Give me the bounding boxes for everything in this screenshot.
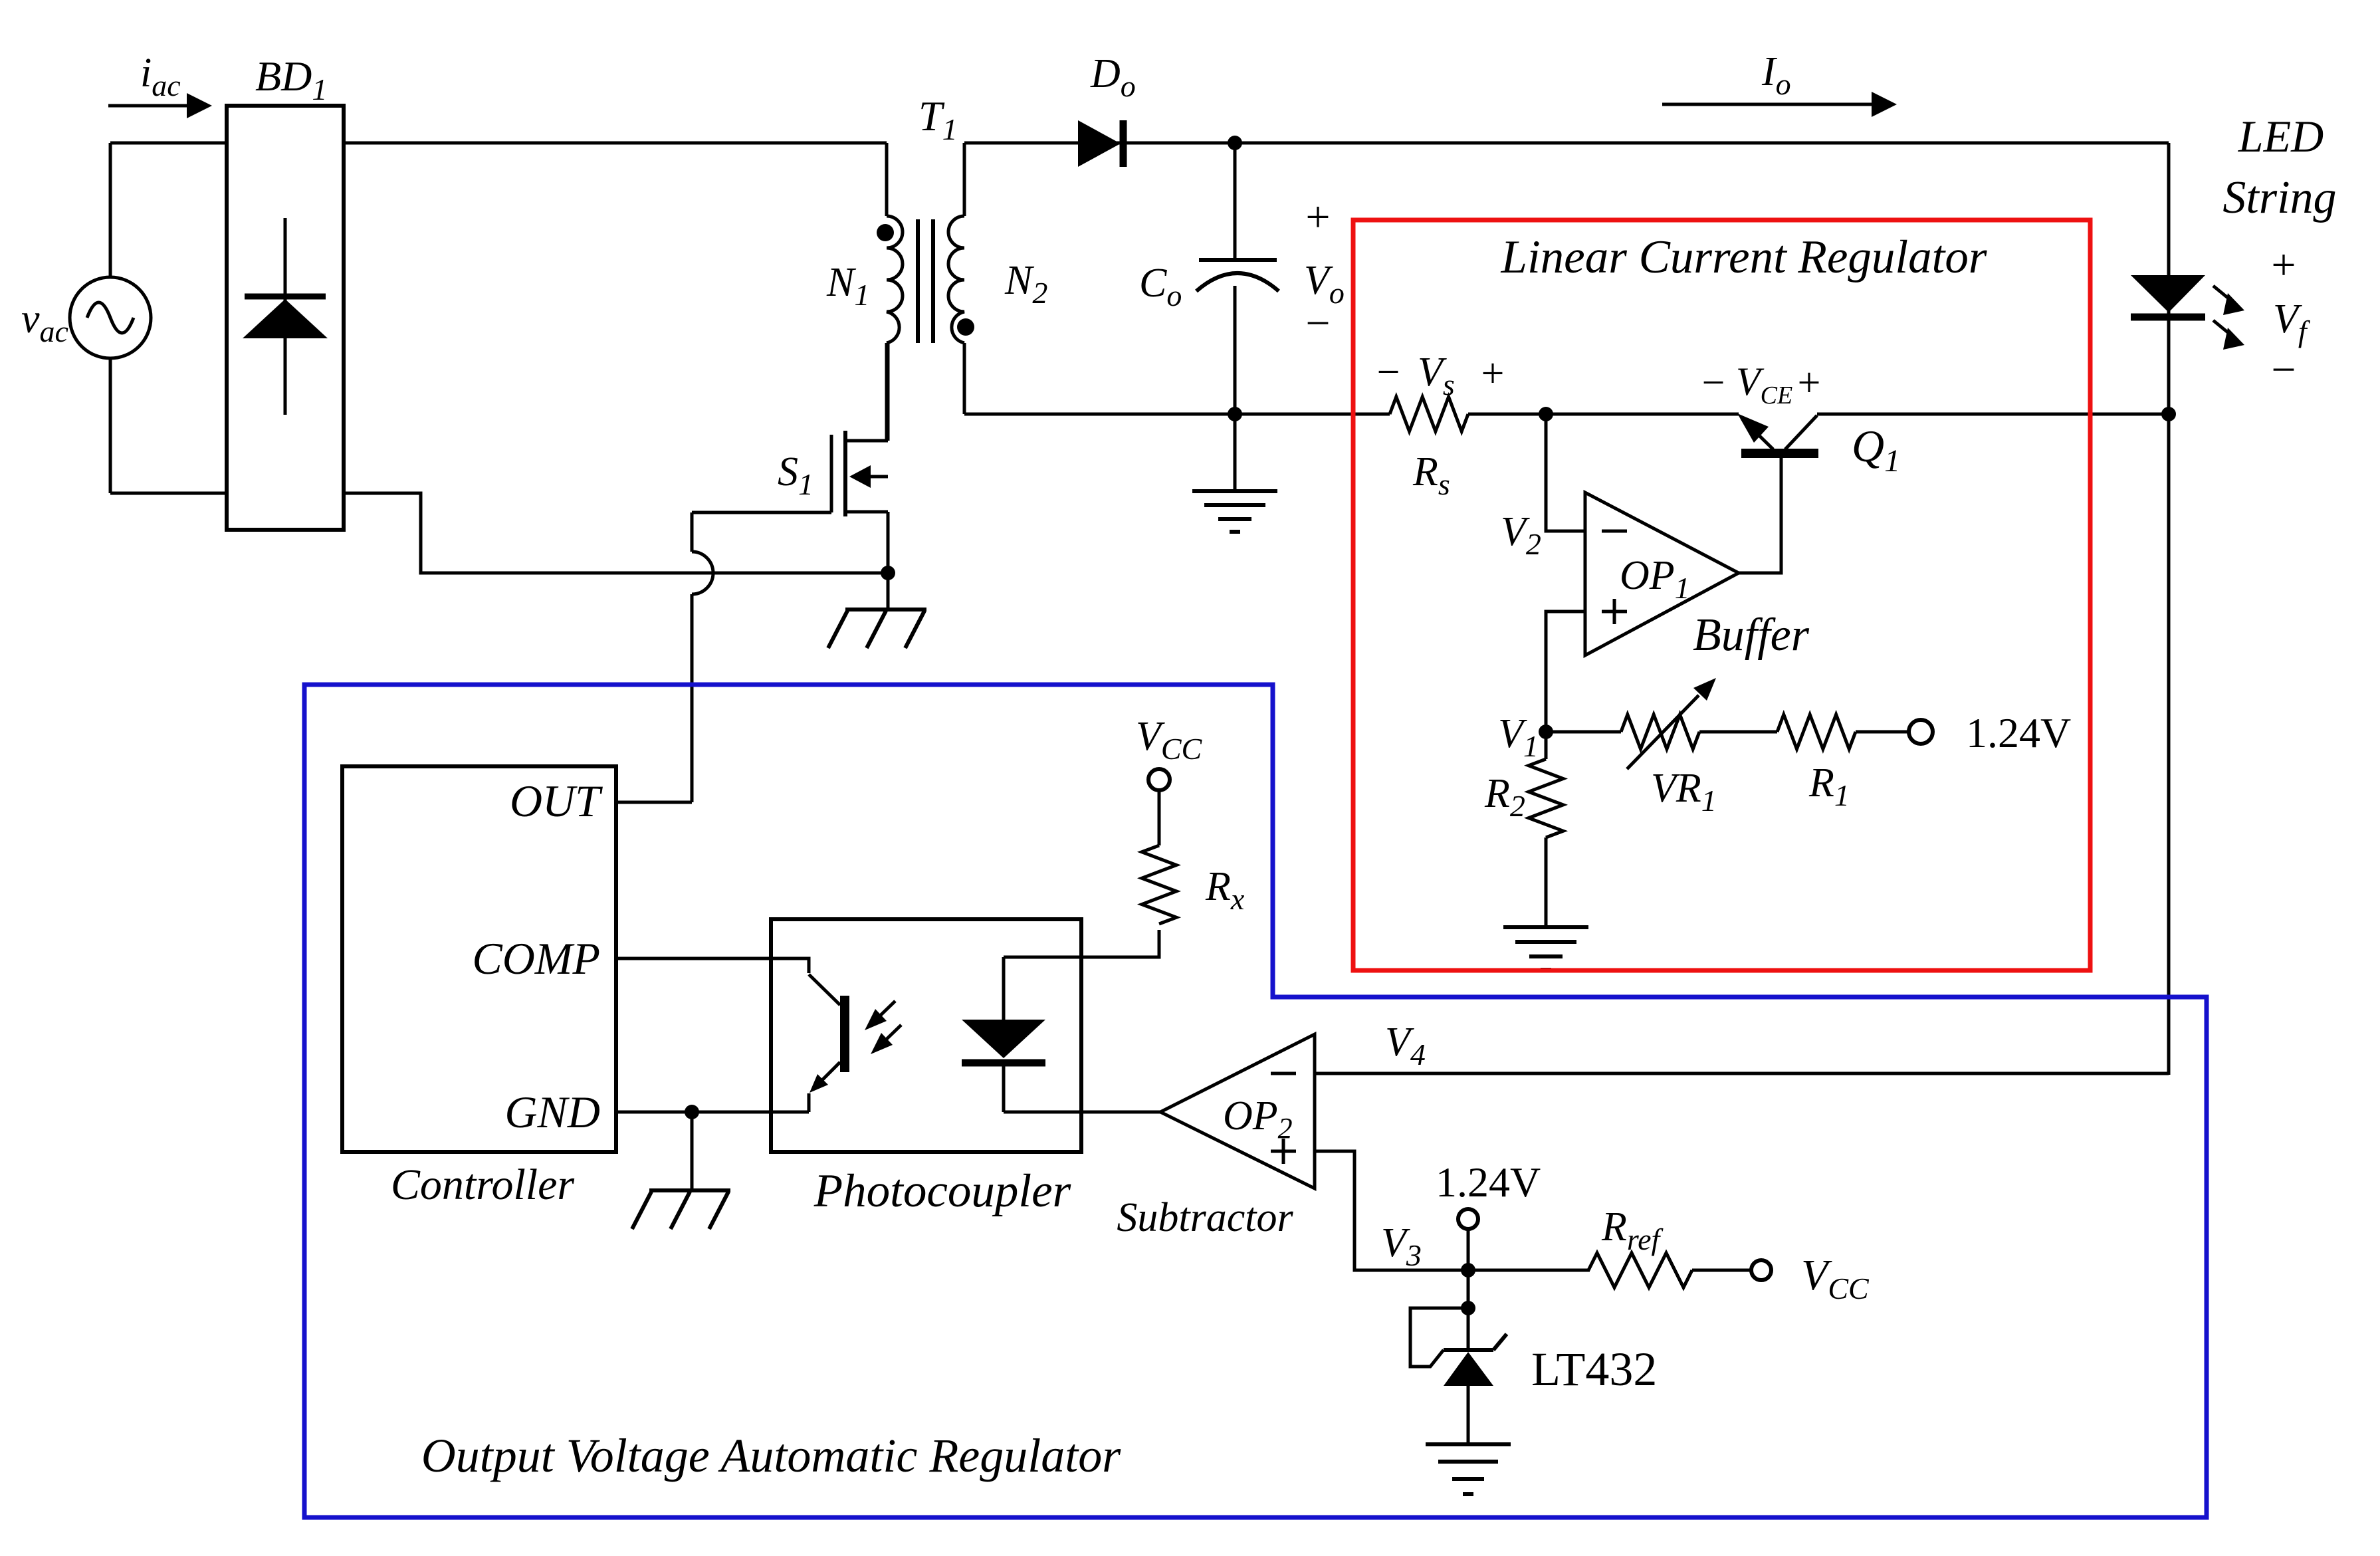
svg-text:Photocoupler: Photocoupler	[813, 1165, 1071, 1217]
wire R1 to 1.24V terminal	[1856, 730, 1908, 734]
junction node at LED string bottom	[2161, 407, 2176, 421]
photocoupler light arrows	[865, 1001, 901, 1054]
wire 1.24V terminal to V3 node	[1467, 1229, 1470, 1270]
svg-text:1.24V: 1.24V	[1966, 709, 2071, 756]
wire top rail from bridge to transformer primary	[344, 142, 887, 145]
wire photocoupler LED anode lead	[1002, 957, 1006, 1020]
transformer T1 secondary dot	[957, 318, 974, 336]
svg-text:−: −	[1305, 299, 1330, 348]
wire photocoupler LED cathode lead	[1002, 1063, 1006, 1112]
wire primary top lead	[885, 143, 889, 216]
wire controller COMP to photocoupler	[616, 958, 809, 973]
wire S1 source junction to chassis ground	[887, 573, 890, 610]
svg-text:−: −	[2271, 346, 2296, 394]
earth ground below LT432	[1426, 1444, 1511, 1494]
junction node at controller GND	[685, 1105, 699, 1119]
Io current arrow	[1662, 92, 1897, 117]
junction node at LT432 cathode	[1461, 1301, 1475, 1315]
svg-text:Linear Current Regulator: Linear Current Regulator	[1500, 231, 1987, 283]
wire Rref to VCC terminal	[1692, 1269, 1751, 1272]
op-amp OP2	[1160, 1034, 1315, 1188]
wire photocoupler emitter to GND rail	[808, 1093, 811, 1112]
transistor Q1	[1737, 413, 1818, 453]
wire vac upper lead	[109, 143, 112, 277]
wire LED string vertical	[2167, 143, 2171, 1075]
op-amp OP1	[1585, 493, 1739, 655]
svg-text:String: String	[2222, 172, 2336, 223]
wire controller GND rail	[616, 1111, 809, 1114]
blue box Output Voltage Automatic Regulator	[304, 685, 2207, 1517]
wire OP2 noninverting input to V3 node	[1315, 1151, 1468, 1270]
MOSFET S1	[831, 343, 888, 573]
junction node at S1 source	[881, 566, 895, 580]
variable resistor VR1	[1621, 678, 1716, 769]
wire OP1 output to Q1 base	[1739, 458, 1781, 573]
svg-text:+: +	[1798, 360, 1821, 405]
resistor R1	[1777, 715, 1856, 749]
junction node at Co bottom	[1228, 407, 1242, 421]
photocoupler box	[771, 919, 1081, 1152]
wire V1 to VR1	[1546, 730, 1621, 734]
svg-text:Buffer: Buffer	[1693, 610, 1810, 661]
transformer T1 core	[918, 219, 933, 343]
svg-text:LT432: LT432	[1531, 1343, 1657, 1396]
wire gate line hop over bottom rail	[692, 552, 713, 594]
wire R2 to earth ground	[1545, 837, 1548, 927]
resistor Rx	[1142, 845, 1176, 924]
svg-text:+: +	[1481, 351, 1505, 396]
bridge rectifier BD1	[227, 106, 344, 530]
transformer T1 primary winding N1	[887, 216, 903, 343]
wire V1 down to R2	[1545, 732, 1548, 759]
wire photocoupler LED to OP2 output	[1004, 1111, 1160, 1114]
svg-text:LED: LED	[2238, 111, 2324, 162]
wire bottom from vac to bridge	[110, 492, 227, 495]
transformer T1 primary dot	[877, 224, 894, 241]
controller box	[342, 766, 616, 1152]
wire V2 junction down to OP1 inverting input	[1546, 414, 1585, 531]
VCC terminal circle after Rref	[1751, 1260, 1771, 1280]
1.24V terminal circle after R1	[1909, 720, 1933, 744]
iac current arrow	[108, 93, 212, 118]
earth ground below R2	[1503, 927, 1588, 970]
wire Rs to V2 junction	[1468, 413, 1739, 416]
svg-text:−: −	[1702, 360, 1725, 405]
wire secondary top rail through Do to LED string corner	[964, 142, 2169, 145]
wire LT432 anode to earth ground	[1467, 1386, 1470, 1444]
1.24V terminal circle above V3	[1458, 1209, 1478, 1229]
photocoupler phototransistor	[809, 974, 845, 1093]
wire vac lower lead	[109, 358, 112, 493]
photocoupler LED	[962, 1020, 1045, 1063]
svg-text:+: +	[2271, 241, 2296, 289]
wire secondary top lead	[963, 143, 966, 216]
wire bottom output rail to Rs	[964, 413, 1390, 416]
chassis ground below S1	[828, 610, 926, 648]
junction node V2	[1539, 407, 1553, 421]
output capacitor Co	[1196, 260, 1279, 291]
transformer T1 secondary winding N2	[948, 216, 964, 343]
output diode Do	[1078, 120, 1123, 167]
wire bridge bottom-right exit	[344, 493, 888, 573]
wire secondary bottom lead	[963, 343, 966, 414]
VCC terminal circle at Rx	[1148, 769, 1170, 790]
wire Co top branch	[1234, 143, 1237, 260]
bridge diode symbol	[243, 218, 328, 415]
wire V4 from OP2 inverting input to LED string	[1315, 1072, 2169, 1075]
wire VCC terminal to Rx	[1158, 790, 1161, 845]
wire S1 gate horizontal	[692, 511, 831, 514]
MOSFET S1 body arrow	[849, 465, 871, 488]
svg-text:+: +	[1305, 193, 1330, 241]
svg-text:Output Voltage Automatic Regul: Output Voltage Automatic Regulator	[421, 1429, 1122, 1482]
wire LT432 reference clamp loop	[1410, 1308, 1468, 1367]
svg-text:Subtractor: Subtractor	[1117, 1195, 1293, 1240]
shunt regulator LT432	[1444, 1334, 1507, 1386]
resistor Rref	[1588, 1253, 1692, 1287]
wire controller OUT stub	[616, 801, 692, 804]
wire Co bottom branch	[1234, 286, 1237, 414]
chassis ground below controller GND	[632, 1190, 730, 1229]
ac source vac	[70, 277, 151, 358]
svg-text:COMP: COMP	[472, 933, 600, 984]
wire V3 node to Rref	[1468, 1269, 1590, 1272]
wire top rail from vac to bridge	[110, 142, 227, 145]
red box Linear Current Regulator	[1353, 220, 2090, 970]
wire S1 gate line vertical upper part	[691, 512, 694, 552]
wire OP1 noninverting input to V1 junction	[1546, 611, 1585, 732]
wire VR1 to R1	[1699, 730, 1777, 734]
sense resistor Rs	[1390, 397, 1468, 431]
wire V3 node down to LT432	[1467, 1270, 1470, 1350]
wire GND junction down to chassis ground	[691, 1112, 694, 1190]
LED of LED string	[2131, 275, 2244, 350]
wire Co ground branch	[1234, 414, 1237, 491]
wire Q1 collector to LED junction	[1817, 413, 2169, 416]
earth ground below Co	[1192, 491, 1277, 532]
svg-text:OUT: OUT	[510, 776, 603, 826]
junction node V1	[1539, 724, 1553, 739]
svg-text:1.24V: 1.24V	[1436, 1159, 1541, 1206]
svg-text:Controller: Controller	[391, 1161, 575, 1209]
svg-text:−: −	[1377, 350, 1400, 395]
resistor R2	[1529, 759, 1563, 837]
wire primary bottom lead to S1 drain	[885, 343, 889, 441]
junction node at Do output	[1228, 136, 1242, 150]
svg-text:GND: GND	[504, 1087, 600, 1137]
wire S1 gate line vertical lower part to controller OUT	[691, 594, 694, 802]
junction node V3	[1461, 1263, 1475, 1278]
wire Rx bottom to photocoupler LED anode	[1004, 930, 1159, 957]
